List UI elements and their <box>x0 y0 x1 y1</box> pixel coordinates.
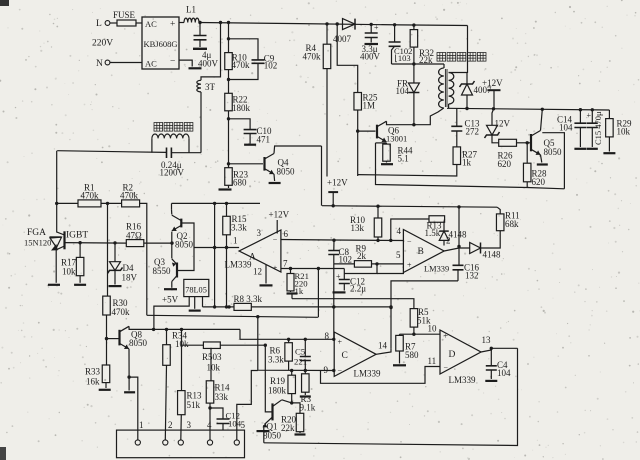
resistor R13 1.5k (B feedback) <box>391 216 445 241</box>
svg-text:10k: 10k <box>617 127 631 137</box>
ground (IGBT emitter) <box>48 284 60 286</box>
wire A pin7 to C12 cap <box>343 269 345 280</box>
wire A pin7 <box>281 267 344 270</box>
svg-text:470k: 470k <box>112 307 131 317</box>
svg-text:10: 10 <box>428 324 438 334</box>
wire 4148 to R11 <box>481 231 501 248</box>
svg-text:13k: 13k <box>351 223 365 233</box>
resistor R2 470k <box>120 183 140 207</box>
resistor R14 33k <box>206 348 230 403</box>
transistor Q8 8050 <box>120 326 148 349</box>
capacitor C15 470u (electrolytic) <box>587 110 604 147</box>
heating coil label 加热线盘 <box>154 123 193 132</box>
svg-text:8550: 8550 <box>153 266 172 276</box>
svg-text:R13: R13 <box>187 391 203 401</box>
wire driver emitters tie <box>170 232 173 259</box>
capacitor C5 221 <box>294 339 311 370</box>
svg-text:1.5k: 1.5k <box>425 228 441 238</box>
wire A output to driver bases <box>194 246 239 249</box>
svg-text:+12V: +12V <box>482 78 503 88</box>
wire R503 to Q1 base column <box>220 344 267 347</box>
svg-text:+12V: +12V <box>269 210 290 220</box>
svg-text:580: 580 <box>405 350 419 360</box>
svg-text:104: 104 <box>396 86 410 96</box>
svg-text:2: 2 <box>446 236 451 246</box>
svg-text:1200V: 1200V <box>160 168 185 178</box>
wire raw bus right end to secondary top <box>467 26 469 74</box>
wire B ground-side loop <box>344 264 403 274</box>
svg-text:132: 132 <box>465 271 479 281</box>
svg-text:+: + <box>273 263 278 272</box>
ground (R3) <box>300 395 311 397</box>
svg-text:13: 13 <box>482 335 492 345</box>
transistor Q2 8050 <box>172 215 194 249</box>
pin label 3 <box>187 420 192 430</box>
pin label 4 <box>207 420 212 430</box>
wire R14 bottom to pin4 <box>208 403 211 440</box>
svg-text:+: + <box>338 338 343 347</box>
svg-text:2.2μ: 2.2μ <box>350 284 366 294</box>
svg-text:+: + <box>407 261 412 270</box>
resistor R15 3.3k <box>223 203 248 247</box>
node N (AC neutral input terminal) <box>96 59 142 69</box>
wire C16 bottom to C output <box>389 281 458 349</box>
resistor R26 620 <box>498 139 517 169</box>
svg-text:KBJ608G: KBJ608G <box>144 40 178 49</box>
svg-text:47Ω: 47Ω <box>126 230 142 240</box>
zener D4 18V <box>108 243 138 284</box>
wire 3T bottom down to heating coil node <box>200 92 202 153</box>
resistor R10 470k <box>225 53 250 71</box>
resistor R503 10k <box>182 342 223 373</box>
svg-text:51k: 51k <box>187 400 201 410</box>
wire +5V reference bus <box>147 269 319 319</box>
svg-text:9.1k: 9.1k <box>300 403 316 413</box>
svg-text:470k: 470k <box>232 60 251 70</box>
capacitor 4u 400V filter <box>193 21 219 69</box>
wire R8 bus <box>203 305 235 308</box>
svg-text:3T: 3T <box>205 82 216 92</box>
scan corner mark bottom <box>0 447 6 460</box>
diode 4007 (bus) <box>333 19 355 44</box>
resistor R3 9.1k <box>300 371 316 413</box>
svg-text:4007: 4007 <box>333 34 352 44</box>
svg-text:1M: 1M <box>363 101 376 111</box>
wire Q2 collector <box>171 210 173 215</box>
wire heating coil left node <box>57 151 166 153</box>
svg-text:R503: R503 <box>202 352 222 362</box>
resistor R27 1k <box>453 147 477 168</box>
regulator 78L05 <box>154 279 209 329</box>
svg-text:471: 471 <box>257 135 271 145</box>
wire IGBT gate <box>65 241 127 245</box>
resistor R30 470k <box>103 203 130 365</box>
wire top rail to R10 chain <box>227 21 230 53</box>
resistor R25 1M <box>354 93 378 111</box>
wire R26 to Q5 base <box>517 141 531 144</box>
resistor R32 22k <box>410 23 434 65</box>
wire heating coil right node <box>171 152 201 154</box>
svg-text:L1: L1 <box>186 5 196 15</box>
wire R8 to C output node <box>251 305 392 309</box>
svg-text:470k: 470k <box>120 191 139 201</box>
pin label 1 <box>139 420 144 430</box>
resistor R22 180k <box>225 93 251 113</box>
svg-text:L: L <box>96 19 102 29</box>
ground (C14) <box>574 148 586 150</box>
resistor R6 3.3k <box>268 339 292 370</box>
svg-text:3: 3 <box>187 420 192 430</box>
op-amp A LM339 <box>225 228 289 277</box>
svg-text:8050: 8050 <box>277 167 296 177</box>
ground (R23) <box>219 188 232 190</box>
svg-text:⌊103: ⌊103 <box>395 53 411 63</box>
wire Q1 emitter <box>263 425 265 443</box>
wire B pin5 net <box>334 262 404 265</box>
wire IGBT collector from heating coil <box>55 151 58 232</box>
svg-text:+: + <box>374 23 379 32</box>
svg-text:7: 7 <box>283 259 288 269</box>
wire R27 bottom to Q6 loop (wire A) <box>358 165 457 177</box>
wire R25 to Q6 base <box>356 110 376 176</box>
svg-text:−: − <box>444 364 449 373</box>
ground (R29) <box>603 152 615 154</box>
wire 3T top hook to top rail <box>201 21 222 81</box>
op-amp C LM339 <box>324 331 388 379</box>
svg-text:+12V: +12V <box>327 178 348 188</box>
resistor R44 5.1 <box>383 144 413 163</box>
transistor Q6 13001 <box>377 121 407 143</box>
svg-text:102: 102 <box>339 255 353 265</box>
svg-text:18V: 18V <box>122 273 138 283</box>
ground (C15) <box>587 148 598 150</box>
fuse FUSE <box>113 10 142 26</box>
ground (R44) <box>381 163 393 165</box>
svg-text:IGBT: IGBT <box>66 231 88 241</box>
svg-text:+: + <box>587 111 592 120</box>
svg-text:+: + <box>444 332 449 341</box>
power +12V (A pin3) <box>269 210 290 234</box>
diode FR 104 <box>396 64 420 126</box>
wire A pin6 to B pin4 <box>281 239 404 243</box>
svg-text:5: 5 <box>241 420 246 430</box>
wire B (Q6 emitter feedback) <box>376 143 565 189</box>
wire driver top rail <box>172 202 261 210</box>
svg-text:C: C <box>342 351 348 361</box>
svg-text:400V: 400V <box>360 52 381 62</box>
svg-text:68k: 68k <box>505 219 519 229</box>
bridge rectifier KBJ608G <box>142 17 179 69</box>
svg-text:AC: AC <box>145 19 157 29</box>
svg-text:4: 4 <box>207 420 212 430</box>
svg-text:C15 470μ: C15 470μ <box>593 111 603 145</box>
ground (D4) <box>109 285 122 287</box>
svg-text:FUSE: FUSE <box>113 10 136 20</box>
capacitor C12 2.2u (electrolytic) <box>336 272 366 294</box>
node L (AC live input terminal) <box>96 19 117 29</box>
wire Q1 base column <box>265 345 271 412</box>
svg-text:272: 272 <box>466 127 480 137</box>
svg-text:180k: 180k <box>232 103 251 113</box>
svg-text:D: D <box>449 350 456 360</box>
resistor R29 10k <box>606 110 632 152</box>
svg-text:1k: 1k <box>462 158 472 168</box>
svg-text:4148: 4148 <box>483 250 502 260</box>
svg-text:8050: 8050 <box>544 147 563 157</box>
wire D pin11 <box>321 367 441 384</box>
resistor R17 10k <box>61 243 84 283</box>
wire +12V mid rail <box>322 205 497 209</box>
svg-text:4: 4 <box>397 226 402 236</box>
svg-text:620: 620 <box>532 177 546 187</box>
capacitor C8 102 <box>328 240 352 264</box>
wire pin5 net <box>237 371 258 440</box>
resistor R16 47ohm <box>126 222 144 247</box>
diode 4007 (secondary rectifier) <box>460 73 493 109</box>
svg-text:C5: C5 <box>295 347 305 357</box>
svg-text:12V: 12V <box>495 119 511 129</box>
ground (R7) <box>393 364 406 366</box>
svg-text:LM339: LM339 <box>225 260 253 270</box>
svg-text:3: 3 <box>257 228 262 238</box>
svg-text:12: 12 <box>253 267 262 277</box>
diode 4148 (horizontal) <box>470 243 501 260</box>
svg-text:8050: 8050 <box>175 240 194 250</box>
svg-text:R14: R14 <box>215 383 231 393</box>
svg-text:102: 102 <box>264 61 278 71</box>
svg-text:180k: 180k <box>268 386 287 396</box>
svg-text:1: 1 <box>233 236 238 246</box>
resistor R9 2k <box>354 244 371 268</box>
wire R503/R13 column <box>181 329 183 390</box>
scan corner mark <box>0 0 9 6</box>
svg-text:−: − <box>407 237 412 246</box>
resistor R34 10k <box>163 329 189 440</box>
resistor R13 51k (lower) <box>178 391 202 440</box>
pin label 5 <box>241 420 246 430</box>
wire IGBT emitter to ground <box>55 250 57 283</box>
svg-text:11: 11 <box>428 356 437 366</box>
switching transformer primary winding <box>439 64 447 108</box>
svg-text:LM339: LM339 <box>424 264 449 273</box>
transistor Q5 8050 <box>531 131 562 158</box>
svg-text:470k: 470k <box>303 52 322 62</box>
svg-text:6: 6 <box>284 229 289 239</box>
wire R1-R2 junction <box>101 202 122 205</box>
svg-text:78L05: 78L05 <box>185 286 207 295</box>
ground (78L05) <box>189 310 201 312</box>
resistor R21 220 1k <box>287 269 309 297</box>
svg-text:14: 14 <box>378 341 388 351</box>
resistor R23 680 <box>225 168 249 188</box>
wire Q6 emitter node <box>376 143 387 144</box>
svg-text:2k: 2k <box>357 251 367 261</box>
label +12V (R4 node) <box>327 178 348 188</box>
svg-text:22k: 22k <box>281 423 295 433</box>
resistor R20 22k <box>281 403 304 433</box>
svg-text:+: + <box>170 20 175 30</box>
resistor R33 16k <box>85 365 110 388</box>
transistor Q4 8050 <box>265 154 296 177</box>
svg-text:104: 104 <box>559 123 573 133</box>
capacitor 3.3u 400V <box>360 23 381 62</box>
svg-text:−: − <box>338 367 343 376</box>
resistor R7 580 <box>396 334 419 363</box>
inductor 3T (current transformer winding) <box>197 80 216 92</box>
resistor R4 470k <box>303 22 331 68</box>
wire Q8 emitter <box>127 349 137 440</box>
wire Q6 collector to transformer primary <box>387 108 444 125</box>
svg-text:15N120: 15N120 <box>24 238 51 248</box>
wire Q5 collector loop right <box>542 133 564 189</box>
label 开关变压器 <box>437 53 486 62</box>
wire bridge + output to L1 <box>179 22 184 24</box>
resistor R8 3.3k <box>234 294 263 310</box>
svg-text:13001: 13001 <box>386 134 407 144</box>
ground (R33) <box>99 389 111 391</box>
svg-text:5.1: 5.1 <box>398 154 409 164</box>
svg-text:1: 1 <box>139 420 144 430</box>
transistor IGBT FGA15N120 <box>24 228 88 251</box>
transistor Q3 8550 <box>153 257 178 282</box>
connector CN1 (5 pin) <box>117 430 245 458</box>
svg-text:+5V: +5V <box>162 295 179 305</box>
wire C pin9 feed <box>258 317 336 372</box>
wire R4 down to +12V label <box>326 69 328 177</box>
ground (C10) <box>244 144 256 146</box>
svg-text:8050: 8050 <box>129 338 148 348</box>
wire R10 to R22 <box>227 70 230 94</box>
wire R5 feed line <box>292 299 414 309</box>
wire main rectified bus (top rail) <box>199 23 468 26</box>
inductor L1 <box>184 5 199 23</box>
svg-text:LM339: LM339 <box>354 369 382 379</box>
ground (bridge negative) <box>189 67 202 69</box>
resistor R19 180k <box>268 371 295 403</box>
ground (R21) <box>287 294 298 299</box>
svg-text:4148: 4148 <box>449 230 468 240</box>
zener 12V <box>485 109 511 143</box>
wire C16 column <box>458 207 460 265</box>
wire D output loop <box>264 348 518 445</box>
wire R23 node to Q4 base <box>229 163 264 165</box>
wire Q4 emitter to ground <box>273 174 276 181</box>
wire Q3 base tie <box>177 248 194 271</box>
svg-text:33k: 33k <box>215 392 229 402</box>
power +12V tap to mid rail <box>328 192 338 207</box>
diode 4148 (vertical) <box>439 219 467 246</box>
wire +12V rail <box>447 107 609 112</box>
wire R16 to driver emitters <box>144 242 172 244</box>
wire R2 down to +5V bus <box>140 203 147 315</box>
wire Q2 base to A output <box>181 223 194 248</box>
wire Q3 collector down <box>171 282 173 288</box>
ground (R17) <box>74 284 86 286</box>
resistor R1 470k <box>57 183 101 207</box>
svg-text:9: 9 <box>324 365 329 375</box>
svg-text:221: 221 <box>294 357 307 367</box>
svg-text:16k: 16k <box>86 377 100 387</box>
wire C8 column down to C pin8 <box>332 264 335 339</box>
svg-text:400V: 400V <box>198 59 219 69</box>
power +12V (transformer output) <box>482 78 503 109</box>
wire Q8 collector bus <box>129 326 240 331</box>
op-amp B LM339 <box>396 226 451 273</box>
node snubber (R32/C102/primary top) <box>392 62 445 65</box>
pin label 2 <box>168 420 173 430</box>
wire Q4 collector <box>274 146 322 154</box>
switching transformer secondary winding <box>449 73 467 109</box>
wire R23 to ground <box>228 185 230 188</box>
wire B output <box>444 245 470 251</box>
svg-text:3.3k: 3.3k <box>268 355 284 365</box>
svg-text:B: B <box>418 247 424 257</box>
svg-text:10k: 10k <box>207 363 221 373</box>
wire bridge - to ground <box>179 60 192 66</box>
heating coil (pan coil) <box>152 134 189 153</box>
capacitor C13 272 <box>451 108 480 146</box>
svg-text:AC: AC <box>145 59 157 69</box>
resistor R5 51k <box>410 307 431 334</box>
capacitor C14 104 <box>557 110 586 147</box>
wire Q5 emitter to ground <box>541 155 542 163</box>
wire R25 feed from raw bus <box>336 22 358 92</box>
svg-text:3.3k: 3.3k <box>231 223 247 233</box>
svg-text:5: 5 <box>396 250 401 260</box>
wire Q8 base <box>107 338 120 340</box>
capacitor 0.24u 1200V resonant <box>160 148 185 178</box>
wire Q1 collector <box>282 400 294 405</box>
svg-text:620: 620 <box>498 159 512 169</box>
wire A out node down to R8 wire <box>213 203 228 308</box>
svg-text:FGA: FGA <box>27 228 46 238</box>
svg-text:−: − <box>170 57 175 67</box>
wire R5 bottom to D pin10 <box>400 333 441 336</box>
capacitor C102 103 <box>389 23 413 64</box>
capacitor C12 104 (connector) <box>210 408 242 430</box>
resistor R10 13k (B input) <box>350 206 382 240</box>
svg-text:2: 2 <box>168 420 173 430</box>
op-amp D LM339 <box>428 324 492 386</box>
capacitor C16 132 <box>453 263 480 281</box>
ground (Q8 emitter) <box>124 377 135 392</box>
capacitor C4 104 <box>486 348 511 379</box>
svg-text:−: − <box>273 236 278 245</box>
svg-text:104: 104 <box>497 368 511 378</box>
svg-text:R33: R33 <box>85 367 101 377</box>
svg-text:470k: 470k <box>81 191 100 201</box>
wire Q5 collector to +12V rail <box>541 109 543 130</box>
transistor Q1 8050 <box>262 400 281 441</box>
ground (R20) <box>295 433 306 435</box>
svg-text:8: 8 <box>325 331 330 341</box>
power +5V (Q3 collector) <box>162 289 179 304</box>
resistor R28 620 <box>523 143 547 187</box>
ground (Q5) <box>537 163 548 165</box>
svg-text:D4: D4 <box>123 263 134 273</box>
ground (C4) <box>485 380 497 382</box>
wire Q4 collector to mid rail <box>321 146 323 206</box>
svg-text:220V: 220V <box>92 39 113 49</box>
svg-text:LM339: LM339 <box>449 375 477 385</box>
svg-text:N: N <box>96 59 103 69</box>
wire D output <box>481 347 518 352</box>
svg-text:680: 680 <box>233 178 247 188</box>
wire C output <box>376 349 391 355</box>
capacitor C9 102 <box>229 39 278 80</box>
capacitor C10 471 <box>229 119 273 145</box>
wire A pin12 to ground <box>265 265 267 284</box>
